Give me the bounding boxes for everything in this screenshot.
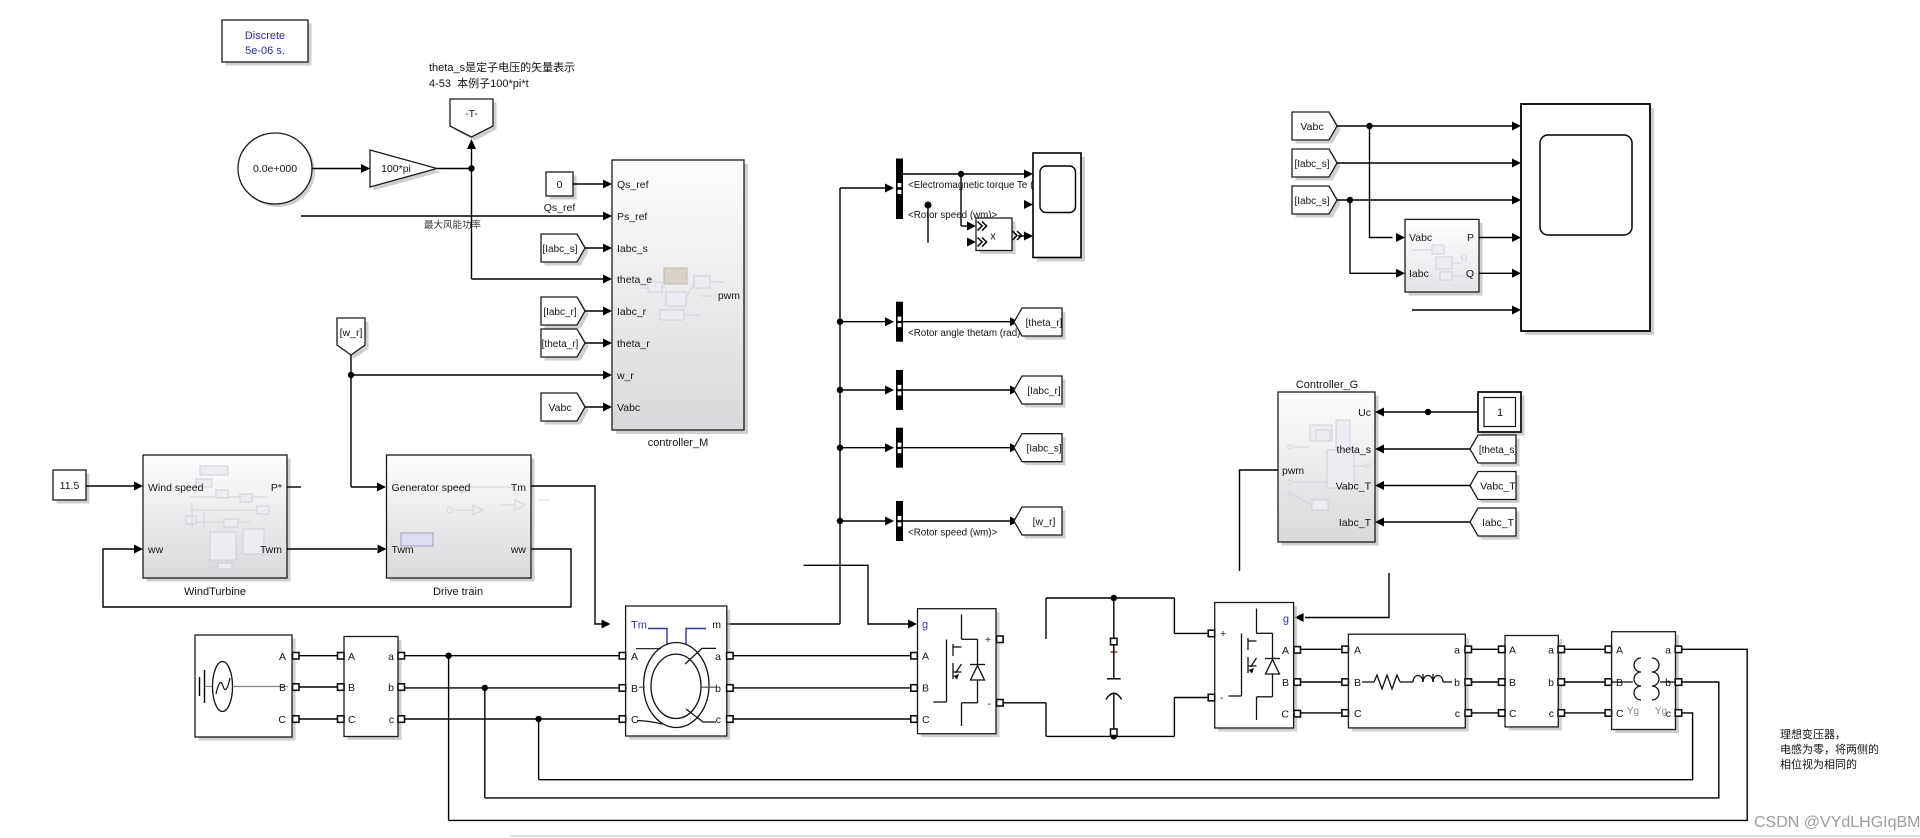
annotation theta_s note — [429, 60, 575, 90]
svg-text:Tm: Tm — [511, 482, 526, 494]
from tag [Iabc_s] (top right b) — [1292, 186, 1341, 218]
svg-text:Ps_ref: Ps_ref — [617, 211, 647, 223]
svg-text:+: + — [1220, 628, 1226, 640]
svg-text:Drive train: Drive train — [433, 586, 483, 598]
wire Twm WindTurbine to Drive train — [287, 545, 387, 554]
svg-text:理想变压器，: 理想变压器， — [1780, 727, 1846, 741]
svg-text:a: a — [1454, 645, 1460, 657]
svg-text:[w_r]: [w_r] — [1033, 516, 1056, 528]
from tag Vabc (top right) — [1292, 112, 1341, 144]
svg-text:Generator speed: Generator speed — [392, 482, 471, 494]
svg-text:[Iabc_r]: [Iabc_r] — [1027, 386, 1061, 397]
svg-text:b: b — [1665, 677, 1671, 689]
from tag [Iabc_s] (top right a) — [1292, 149, 1521, 181]
universal bridge 1 (rotor side) — [911, 609, 1003, 738]
three-phase VI measurement 1 — [338, 637, 405, 741]
svg-text:P: P — [1467, 232, 1474, 244]
svg-text:theta_s是定子电压的矢量表示: theta_s是定子电压的矢量表示 — [429, 60, 575, 74]
svg-text:[Iabc_r]: [Iabc_r] — [543, 307, 577, 318]
svg-text:c: c — [1455, 708, 1460, 720]
goto tag -T- — [450, 99, 497, 141]
wire w_r net — [348, 355, 612, 492]
wire machine a/b/c to bridge1 — [733, 656, 911, 719]
svg-text:Iabc_T: Iabc_T — [1339, 517, 1372, 529]
wire 11.5 to WindTurbine — [86, 482, 143, 491]
wire RL to measure2 — [1472, 649, 1502, 713]
svg-text:+: + — [985, 634, 991, 646]
svg-text:-: - — [1220, 692, 1224, 704]
svg-text:Yg: Yg — [1655, 706, 1667, 717]
svg-text:A: A — [631, 651, 638, 663]
wire bottom faint seam line — [510, 835, 1920, 837]
wire ww feedback loop — [103, 545, 571, 608]
svg-text:A: A — [1282, 645, 1289, 657]
svg-text:B: B — [1509, 677, 1516, 689]
svg-text:C: C — [1354, 708, 1362, 720]
wire to goto -T- with up arrow — [467, 139, 476, 169]
wire transformer c loop back — [539, 713, 1693, 780]
svg-text:a: a — [388, 651, 394, 663]
wire Q to scope2 — [1479, 269, 1521, 278]
svg-text:-: - — [988, 698, 992, 710]
svg-text:<Rotor speed (wm)>: <Rotor speed (wm)> — [908, 528, 998, 539]
svg-text:最大风能功率: 最大风能功率 — [424, 219, 482, 231]
svg-text:c: c — [389, 714, 394, 726]
svg-text:Vabc: Vabc — [548, 402, 571, 414]
asynchronous machine block — [619, 606, 733, 740]
svg-text:[Iabc_s]: [Iabc_s] — [1294, 159, 1329, 170]
dc link capacitor — [1003, 595, 1208, 740]
svg-text:B: B — [631, 683, 638, 695]
wire measure2 to transformer — [1565, 649, 1609, 713]
from tag [w_r] top — [337, 318, 369, 359]
svg-text:Vabc: Vabc — [1300, 121, 1323, 133]
wire Te to scope and product — [903, 170, 1062, 231]
scope Te/wm — [1033, 153, 1085, 262]
svg-text:theta_r: theta_r — [617, 338, 650, 350]
svg-text:100*pi: 100*pi — [381, 163, 411, 175]
scope2 (large) — [1521, 104, 1654, 335]
svg-text:Vabc: Vabc — [1409, 232, 1432, 244]
svg-text:1: 1 — [1497, 407, 1503, 419]
svg-text:P*: P* — [271, 482, 282, 494]
display constant 1 — [1478, 392, 1525, 436]
annotation ideal transformer note — [1780, 727, 1879, 771]
from tag [Iabc_r] — [541, 297, 612, 329]
svg-text:Discrete: Discrete — [245, 30, 285, 42]
svg-text:[theta_s]: [theta_s] — [1479, 445, 1518, 456]
svg-text:Tm: Tm — [631, 620, 647, 632]
svg-text:g: g — [1283, 614, 1289, 626]
from tag [theta_s] — [1375, 435, 1520, 467]
svg-text:[Iabc_s]: [Iabc_s] — [1294, 196, 1329, 207]
wire Uc — [1375, 408, 1478, 417]
svg-text:A: A — [1509, 645, 1516, 657]
svg-text:C: C — [278, 714, 286, 726]
wire pwm to bridge2 gate (seam-cut stub) — [1295, 573, 1389, 622]
wire circle to gain — [312, 164, 370, 173]
svg-text:A: A — [1354, 645, 1361, 657]
svg-text:c: c — [1549, 708, 1554, 720]
block Discrete sample-time — [222, 20, 312, 66]
subsystem WindTurbine — [143, 455, 291, 598]
svg-text:A: A — [279, 651, 286, 663]
svg-text:C: C — [1509, 708, 1517, 720]
svg-text:a: a — [715, 651, 721, 663]
svg-text:Iabc_s: Iabc_s — [617, 243, 648, 255]
wire Iabc to scope2 and P-meter — [1337, 196, 1521, 278]
svg-text:Vabc: Vabc — [617, 402, 640, 414]
wire pwm to bridge1 gate (seam-cut stub) — [804, 565, 917, 628]
svg-text:Iabc_r: Iabc_r — [617, 306, 647, 318]
svg-text:theta_s: theta_s — [1337, 444, 1371, 456]
goto tag [w_r] — [1014, 507, 1066, 539]
wire Ps_ref (from WindTurbine P*) — [301, 212, 612, 232]
svg-text:c: c — [716, 714, 721, 726]
svg-text:Uc: Uc — [1358, 407, 1371, 419]
from tag Vabc — [541, 393, 612, 425]
three-phase source block — [195, 635, 299, 741]
svg-text:a: a — [1548, 645, 1554, 657]
ideal transformer Yg-Yg — [1605, 632, 1682, 733]
source circle 0.0e+000 — [238, 133, 315, 207]
subsystem PQ measurement — [1405, 219, 1483, 295]
svg-text:4-53 本例子100*pi*t: 4-53 本例子100*pi*t — [429, 76, 529, 90]
svg-text:Qs_ref: Qs_ref — [544, 202, 576, 214]
svg-text:B: B — [1282, 677, 1289, 689]
svg-text:0: 0 — [557, 179, 563, 191]
svg-text:[theta_r]: [theta_r] — [1026, 318, 1063, 329]
svg-text:Wind speed: Wind speed — [148, 482, 204, 494]
wire scope2 input 6 (seam-cut stub) — [1412, 306, 1521, 315]
svg-text:x: x — [990, 231, 996, 243]
svg-text:b: b — [388, 682, 394, 694]
svg-text:Q: Q — [1466, 268, 1474, 280]
svg-text:B: B — [279, 682, 286, 694]
bus selector 5 — [840, 501, 1019, 541]
wire P to scope2 — [1479, 233, 1521, 242]
bus selector 1 — [896, 159, 903, 220]
wire machine m to bus selectors (vertical feed) — [727, 184, 894, 625]
svg-text:B: B — [348, 682, 355, 694]
svg-text:B: B — [922, 683, 929, 695]
svg-text:b: b — [715, 683, 721, 695]
bus selector 4 — [840, 428, 1019, 468]
goto tag [Iabc_s] — [1014, 434, 1066, 466]
svg-text:[theta_r]: [theta_r] — [542, 339, 579, 350]
svg-text:Vabc_T: Vabc_T — [1480, 481, 1516, 493]
constant 11.5 — [53, 470, 90, 504]
svg-text:B: B — [1616, 677, 1623, 689]
wire bridge2 to RL branch — [1301, 649, 1346, 713]
goto tag [theta_r] — [1014, 308, 1066, 340]
svg-text:C: C — [1281, 709, 1289, 721]
svg-text:[Iabc_s]: [Iabc_s] — [1026, 444, 1061, 455]
subsystem Controller_G — [1278, 379, 1379, 546]
svg-text:11.5: 11.5 — [60, 480, 80, 492]
svg-text:A: A — [348, 651, 355, 663]
bus selector 3 — [840, 370, 1019, 410]
svg-text:b: b — [1454, 677, 1460, 689]
svg-text:-T-: -T- — [465, 108, 478, 120]
svg-text:Iabc: Iabc — [1409, 268, 1429, 280]
constant Qs_ref — [544, 172, 577, 214]
svg-text:Controller_G: Controller_G — [1296, 379, 1358, 391]
from tag Vabc_T — [1375, 472, 1520, 504]
svg-text:B: B — [1354, 677, 1361, 689]
svg-text:5e-06 s.: 5e-06 s. — [245, 45, 285, 57]
product block x — [976, 218, 1033, 254]
subsystem controller_M — [612, 160, 748, 449]
universal bridge 2 (grid side) — [1208, 603, 1300, 732]
svg-text:C: C — [922, 714, 930, 726]
svg-text:[Iabc_s]: [Iabc_s] — [542, 244, 577, 255]
svg-text:controller_M: controller_M — [648, 437, 709, 449]
svg-text:相位视为相同的: 相位视为相同的 — [1780, 757, 1857, 771]
svg-text:Yg: Yg — [1627, 706, 1639, 717]
from tag [theta_r] — [541, 329, 612, 361]
svg-text:theta_e: theta_e — [617, 274, 652, 286]
svg-text:ww: ww — [510, 544, 527, 556]
wire Vabc to scope2 and P-meter — [1337, 122, 1521, 243]
svg-text:[w_r]: [w_r] — [340, 327, 363, 339]
svg-text:pwm: pwm — [718, 290, 740, 302]
svg-text:g: g — [922, 619, 928, 631]
wire Controller_G pwm stub (seam-cut) — [1240, 470, 1279, 571]
svg-text:pwm: pwm — [1282, 465, 1304, 477]
svg-text:CSDN @VYdLHGIqBM: CSDN @VYdLHGIqBM — [1754, 814, 1920, 831]
svg-text:C: C — [1616, 708, 1624, 720]
svg-text:a: a — [1665, 645, 1671, 657]
wire transformer a loop back — [449, 649, 1748, 820]
svg-text:w_r: w_r — [616, 370, 634, 382]
wire WindTurbine P* stub — [287, 486, 301, 488]
wire transformer b loop back — [485, 682, 1719, 798]
svg-text:m: m — [712, 619, 721, 631]
subsystem Drive train — [387, 455, 550, 598]
svg-text:ww: ww — [147, 544, 164, 556]
goto tag [Iabc_r] — [1014, 376, 1066, 408]
from tag Iabc_T — [1375, 508, 1520, 540]
svg-text:A: A — [1616, 645, 1623, 657]
svg-text:Qs_ref: Qs_ref — [617, 179, 649, 191]
gain 100*pi — [370, 150, 441, 191]
bus selector 2 — [840, 302, 1026, 342]
svg-text:Twm: Twm — [392, 544, 414, 556]
from tag [Iabc_s] — [541, 234, 612, 266]
svg-text:C: C — [348, 714, 356, 726]
wire source to measure1 A/B/C — [299, 656, 340, 719]
svg-text:<Rotor angle thetam (rad)>: <Rotor angle thetam (rad)> — [908, 328, 1026, 339]
three-phase series RL branch — [1342, 634, 1472, 731]
svg-text:Iabc_T: Iabc_T — [1482, 517, 1515, 529]
svg-text:0.0e+000: 0.0e+000 — [253, 163, 297, 175]
wire Qs_ref to controller — [573, 180, 612, 189]
svg-text:Vabc_T: Vabc_T — [1336, 481, 1372, 493]
wire Tm Drive train to machine — [531, 486, 611, 629]
svg-text:A: A — [922, 651, 929, 663]
svg-text:WindTurbine: WindTurbine — [184, 586, 246, 598]
wire gain to junction — [437, 165, 612, 283]
svg-text:Twm: Twm — [260, 544, 282, 556]
wire measure1 a/b/c to machine A/B/C with taps — [405, 653, 619, 821]
svg-text:b: b — [1548, 677, 1554, 689]
svg-text:电感为零，将两侧的: 电感为零，将两侧的 — [1780, 742, 1879, 756]
wire wm stub to product (seam-cut) — [908, 200, 1033, 247]
three-phase VI measurement 2 — [1499, 636, 1565, 731]
